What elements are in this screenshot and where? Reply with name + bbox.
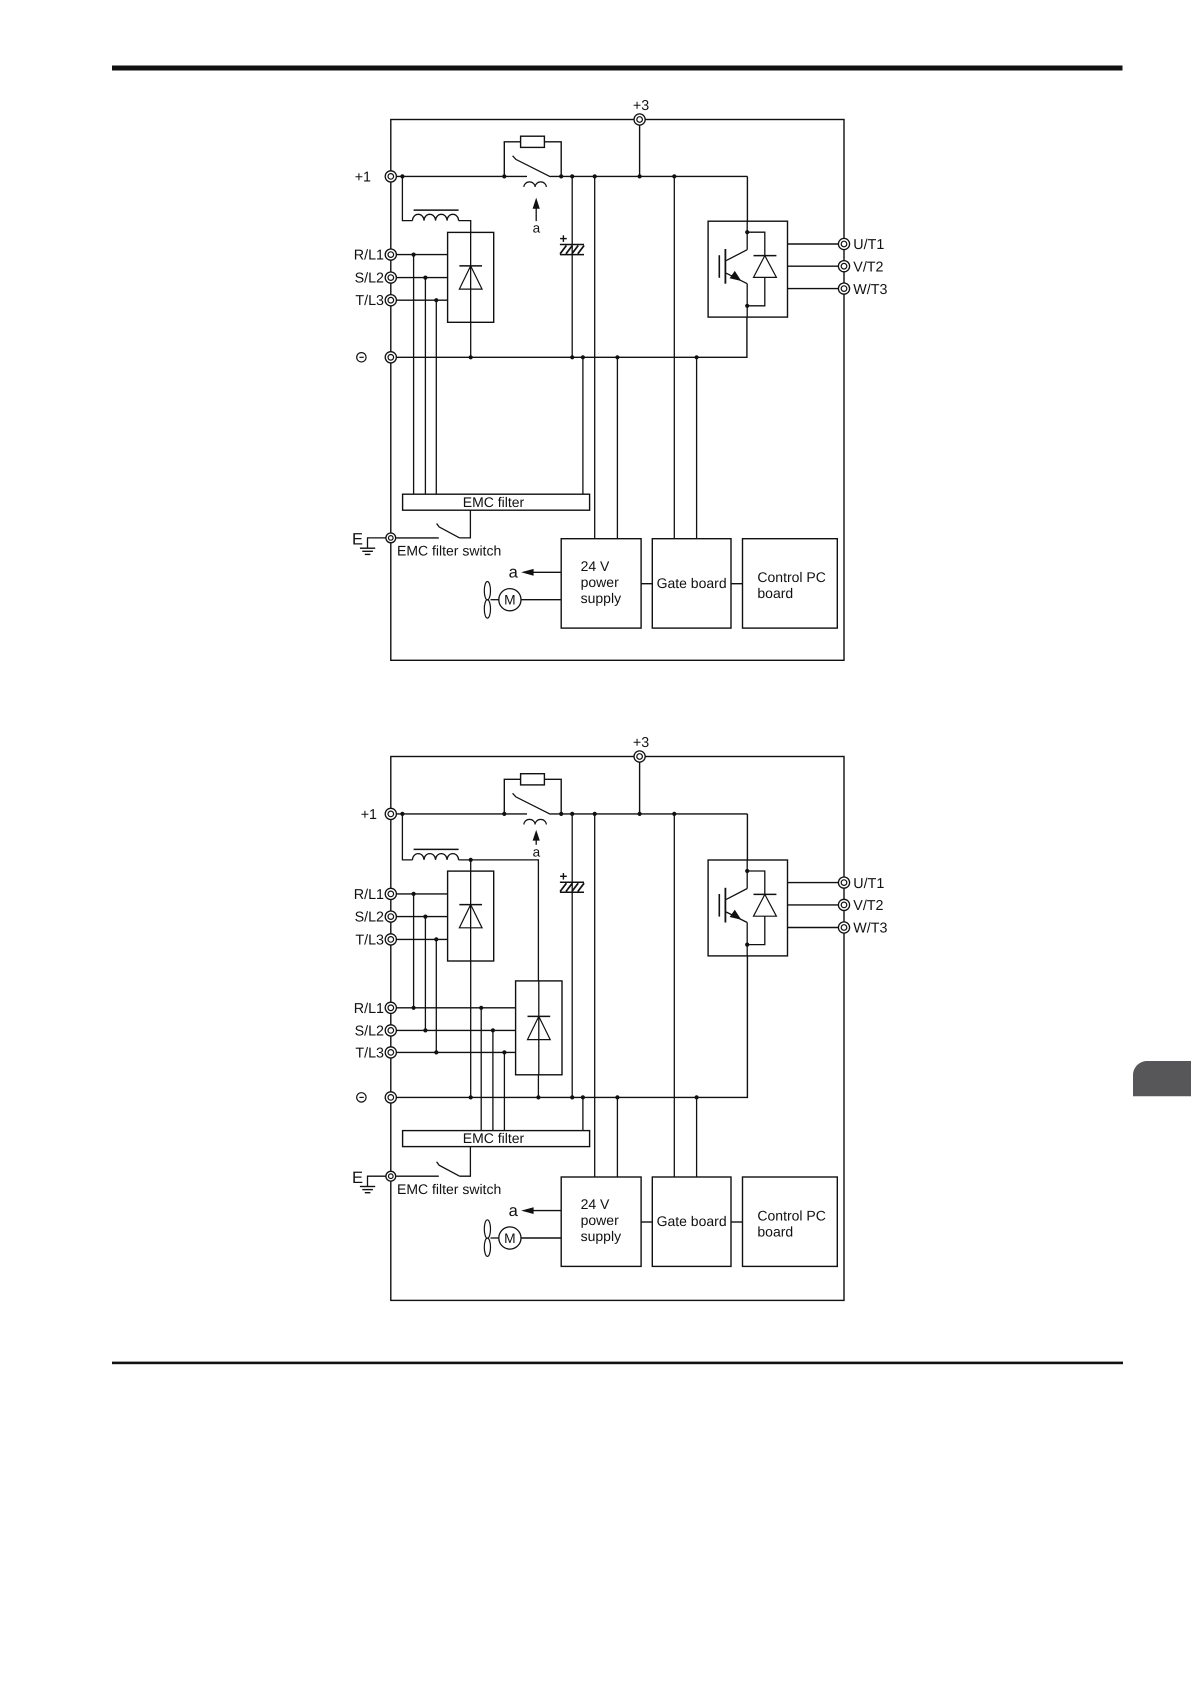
junction T/L3-2 EMC tap [502,1050,506,1054]
IGBT INV1 collector lead [726,250,747,261]
wire resistor right leg [544,142,561,177]
capacitor C2 hatch strokes [560,883,584,891]
terminal R/L1 [385,249,396,260]
inverter INV1 freewheel diode cathode bar [754,255,777,257]
junction S/L2-1 link tap [423,915,427,919]
IGBT INV2 collector lead [726,889,747,900]
svg-text:+1: +1 [355,169,371,185]
terminal S/L2 [385,1025,396,1036]
control PC board label [757,569,825,601]
svg-text:S/L2: S/L2 [355,271,384,287]
svg-text:board: board [757,1223,793,1239]
inverter INV1 diode bottom branch [747,277,765,305]
wire EMC filter to switch [460,1147,471,1177]
junction S/L2-2 link [423,1028,427,1032]
junction minus/24V-feed [615,1095,619,1099]
wire rectifier minus output [470,322,472,357]
IGBT INV2 gate bar [718,894,720,917]
inverter INV1 collector rail [746,221,748,250]
svg-text:T/L3: T/L3 [355,932,384,948]
svg-text:+3: +3 [633,98,649,114]
inverter INV2 emitter rail [746,923,748,956]
wire R/L1 to EMC filter [413,255,415,495]
label DC minus [357,1093,366,1102]
wire +3 drop [639,762,641,814]
junction S/L2-2 EMC tap [491,1028,495,1032]
wire 24V supply to gate board [641,583,652,585]
IGBT INV1 gate bar [718,255,720,278]
svg-text:E: E [352,531,363,549]
DC bus capacitor C2 lead [571,814,573,892]
fan motor M circle [499,589,521,611]
wire resistor right leg [544,779,561,814]
wire E terminal to switch [396,1175,439,1177]
rectifier REC2 diode cathode bar [528,1015,551,1017]
svg-text:EMC filter: EMC filter [463,494,525,510]
svg-text:a: a [509,564,519,582]
wire bus to DC reactor [402,176,412,220]
wire inverter output V/T2 [788,904,839,906]
svg-text:T/L3: T/L3 [355,1045,384,1061]
wire +1 bus to gate board [673,814,675,1177]
IGBT INV1 emitter lead [726,273,747,284]
rectifier REC1 diode cathode bar [459,265,482,267]
wire inverter output U/T1 [788,243,839,245]
inverter INV2 freewheel diode cathode bar [754,893,777,895]
svg-text:Gate board: Gate board [657,1213,727,1229]
24 V power supply label [581,558,621,606]
wire S/L2 to EMC filter [424,278,426,495]
fan motor M circle [499,1227,521,1249]
junction minus/gate-feed [695,355,699,359]
svg-text:V/T2: V/T2 [853,259,883,275]
wire T/L3 to EMC filter [435,300,437,494]
svg-text:a: a [509,1202,519,1220]
inverter INV2 top node junction [745,869,749,873]
wire resistor left leg [504,779,520,814]
rectifier bridge REC2 box [516,981,562,1075]
wire bus to DC reactor [402,814,412,860]
24 V power supply box [561,1177,641,1266]
DC reactor core bar [414,848,459,850]
wire minus bus to 24V supply [616,357,618,538]
wire phase R/L1 input (group 2) [396,1007,515,1009]
wire phase T/L3 input [396,299,447,301]
wire DC bus right segment [551,175,748,177]
capacitor C2 bottom lead [571,892,573,1097]
junction bus/24V-feed [593,812,597,816]
rectifier bridge REC1 box [448,232,494,322]
cooling fan blades [484,1220,490,1257]
svg-text:EMC filter: EMC filter [463,1130,525,1146]
IGBT inverter module INV2 box [708,860,787,956]
inverter INV2 diode top branch [747,871,765,894]
EMC filter switch blade [437,1162,460,1176]
svg-text:M: M [504,593,516,608]
junction R/L1-1 link tap [412,892,416,896]
contactor control arrow a [533,198,540,222]
junction reactor line / rectifier 1 [469,858,473,862]
wire +1 bus to 24V supply [594,814,596,1177]
junction R/L1 EMC tap [412,253,416,257]
wire E terminal to switch [396,537,439,539]
svg-text:T/L3: T/L3 [355,293,384,309]
svg-text:+3: +3 [633,735,649,751]
wire resistor left leg [504,142,520,177]
EMC filter box [403,1131,590,1147]
gate board box [652,539,731,628]
svg-text:W/T3: W/T3 [853,921,887,937]
terminal U/T1 [838,877,849,888]
junction R/L1-2 EMC tap [479,1006,483,1010]
capacitor C1 hatch strokes [560,246,584,254]
wire phase S/L2 input [396,277,447,279]
footer rule [112,1362,1123,1365]
rectifier bridge REC1b box [448,871,494,961]
wire reactor to rectifier [459,221,471,233]
junction bus/reactor [400,812,404,816]
terminal +1 [385,171,396,182]
junction bus/gate-feed [672,812,676,816]
IGBT INV1 emitter arrow [730,271,742,281]
svg-text:EMC filter switch: EMC filter switch [397,543,501,559]
wire gate board to control PC board [731,583,743,585]
control PC board box [743,1177,838,1266]
svg-text:U/T1: U/T1 [853,237,884,253]
junction bus/24V-feed [593,174,597,178]
wire DC bus left segment [396,813,527,815]
wire minus bus to gate board [696,1097,698,1177]
wire inverter output V/T2 [788,265,839,267]
svg-text:a: a [533,845,541,860]
rectifier REC1 diode triangle [459,266,482,289]
svg-text:Control PC: Control PC [757,569,825,585]
wire DC bus right segment [551,813,748,815]
wire E to ground [368,538,386,548]
wire gate board to control PC board [731,1221,743,1223]
wire +1 bus to gate board [673,176,675,538]
bypass contactor contact blade [513,156,551,177]
terminal +3 [634,114,645,125]
svg-text:E: E [352,1169,363,1187]
DC reactor coil [413,854,459,860]
capacitor C1 bottom plate [560,254,584,256]
ground symbol [360,548,375,554]
wire phase S/L2 input (group 2) [396,1029,515,1031]
rectifier REC1b diode cathode bar [459,904,482,906]
DC reactor coil [413,214,459,220]
wire T/L3 group link [435,939,437,1052]
junction minus/rectifier-1 [469,1095,473,1099]
terminal T/L3 [385,934,396,945]
svg-text:Gate board: Gate board [657,575,727,591]
IGBT INV2 body bar [724,888,726,923]
wire fan hub [491,599,499,601]
svg-text:a: a [533,220,541,235]
svg-text:Control PC: Control PC [757,1207,825,1223]
junction bus/gate-feed [672,174,676,178]
capacitor C2 top plate [560,881,584,883]
terminal V/T2 [838,261,849,272]
wire fan motor to 24V supply [521,599,561,601]
terminal DC minus [385,352,396,363]
terminal U/T1 [838,238,849,249]
junction minus/EMC-feed [581,1095,585,1099]
DC reactor core bar [414,209,459,211]
wire DC minus bus [396,956,747,1097]
inverter INV2 freewheel diode triangle [754,894,777,916]
inverter INV2 bottom node junction [745,943,749,947]
junction bus/+3 [638,812,642,816]
svg-text:power: power [581,1212,619,1228]
gate board box [652,1177,731,1266]
junction minus/capacitor [570,355,574,359]
EMC filter switch blade [437,524,460,538]
terminal DC minus [385,1092,396,1103]
wire rectifier 2 minus output [537,1075,539,1098]
rectifier REC2 through line [538,981,540,1075]
junction minus/rectifier [469,355,473,359]
inverter INV2 collector rail [746,860,748,889]
wire +1 bus to 24V supply [594,176,596,538]
terminal E [386,1171,396,1181]
wire minus bus to EMC filter [582,1097,584,1130]
terminal E [386,533,396,543]
wire phase R/L1 input (group 1) [396,893,447,895]
24 V power supply label [581,1196,621,1244]
DC bus capacitor C1 lead [571,176,573,254]
svg-text:supply: supply [581,1228,621,1244]
junction bus/resistor-left [502,174,506,178]
wire R/L1 to EMC filter [480,1008,482,1131]
svg-text:S/L2: S/L2 [355,910,384,926]
wire phase T/L3 input (group 1) [396,938,447,940]
terminal T/L3 [385,295,396,306]
wire phase T/L3 input (group 2) [396,1051,515,1053]
terminal R/L1 [385,1002,396,1013]
wire bus to inverter [746,814,748,860]
junction bus/capacitor [570,812,574,816]
junction T/L3-1 link tap [434,937,438,941]
IGBT INV2 emitter arrow [730,910,742,920]
capacitor C1 plus mark [560,235,567,242]
svg-text:R/L1: R/L1 [354,887,384,903]
precharge resistor [521,136,545,147]
junction T/L3 EMC tap [434,298,438,302]
junction bus/reactor [400,174,404,178]
enclosure box (diagram 1) [391,120,844,661]
junction minus/rectifier-2 [536,1095,540,1099]
svg-text:24 V: 24 V [581,1196,610,1212]
contactor control arrow a [533,830,540,845]
cooling fan blades [484,582,490,619]
inverter INV1 diode top branch [747,232,765,255]
header rule [112,66,1123,71]
terminal T/L3 [385,1047,396,1058]
wire rectifier 1 plus lead [470,860,472,871]
capacitor C2 plus mark [560,873,567,880]
wire E to ground [368,1176,386,1186]
junction bus/resistor-right [559,174,563,178]
junction bus/resistor-left [502,812,506,816]
wire minus bus to 24V supply [616,1097,618,1177]
terminal R/L1 [385,888,396,899]
junction T/L3-2 link [434,1050,438,1054]
junction bus/resistor-right [559,812,563,816]
svg-text:24 V: 24 V [581,558,610,574]
24 V power supply box [561,539,641,628]
rectifier REC1b diode triangle [459,905,482,928]
rectifier REC1 through line [470,232,472,322]
control PC board box [743,539,838,628]
svg-text:board: board [757,585,793,601]
junction bus/capacitor [570,174,574,178]
terminal +1 [385,808,396,819]
wire DC minus bus [396,317,747,357]
wire fan hub [491,1237,499,1239]
contactor coil [524,819,546,824]
wire inverter output W/T3 [788,927,839,929]
terminal S/L2 [385,272,396,283]
wire R/L1 group link [413,894,415,1008]
svg-text:R/L1: R/L1 [354,1001,384,1017]
junction S/L2 EMC tap [423,276,427,280]
capacitor C2 bottom plate [560,891,584,893]
svg-text:U/T1: U/T1 [853,876,884,892]
junction minus/capacitor [570,1095,574,1099]
wire EMC filter to switch [460,510,471,538]
wire S/L2 to EMC filter [492,1030,494,1130]
wire S/L2 group link [424,917,426,1031]
rectifier REC1b through line [470,871,472,961]
chapter thumb tab [1133,1061,1191,1096]
wire phase R/L1 input [396,254,447,256]
precharge resistor [521,774,545,785]
wire minus bus to gate board [696,357,698,538]
terminal W/T3 [838,922,849,933]
wire +3 drop [639,125,641,176]
wire 24V supply to gate board [641,1221,652,1223]
ground symbol [360,1187,375,1193]
svg-text:V/T2: V/T2 [853,898,883,914]
svg-text:EMC filter switch: EMC filter switch [397,1181,501,1197]
bypass contactor contact blade [513,793,551,814]
inverter INV1 emitter rail [746,284,748,317]
IGBT inverter module INV1 box [708,221,787,317]
junction minus/EMC-feed [581,355,585,359]
junction minus/gate-feed [695,1095,699,1099]
svg-text:power: power [581,574,619,590]
junction minus/24V-feed [615,355,619,359]
IGBT INV1 body bar [724,249,726,284]
inverter INV1 top node junction [745,230,749,234]
wire inverter output U/T1 [788,882,839,884]
terminal S/L2 [385,911,396,922]
wire reactor to rectifier 2 feed [459,860,539,981]
terminal W/T3 [838,283,849,294]
inverter INV2 diode bottom branch [747,916,765,944]
IGBT INV2 emitter lead [726,912,747,923]
svg-text:M: M [504,1231,516,1246]
capacitor C1 top plate [560,244,584,246]
control-signal arrow a (24V supply) [521,569,561,576]
junction bus/+3 [638,174,642,178]
svg-text:supply: supply [581,590,621,606]
svg-text:R/L1: R/L1 [354,248,384,264]
wire T/L3 to EMC filter [503,1052,505,1130]
wire inverter output W/T3 [788,288,839,290]
svg-text:W/T3: W/T3 [853,282,887,298]
terminal +3 [634,751,645,762]
svg-text:S/L2: S/L2 [355,1023,384,1039]
junction R/L1-2 link [412,1006,416,1010]
label DC minus [357,353,366,362]
wire DC bus left segment [396,175,527,177]
EMC filter box [403,494,590,510]
enclosure box (diagram 2) [391,757,844,1301]
wire minus bus to EMC filter [582,357,584,494]
inverter INV1 freewheel diode triangle [754,256,777,278]
capacitor C1 bottom lead [571,255,573,358]
control PC board label [757,1207,825,1239]
inverter INV1 bottom node junction [745,304,749,308]
wire rectifier 1 minus output [470,961,472,1097]
control-signal arrow a (24V supply) [521,1207,561,1214]
svg-text:+1: +1 [361,807,377,823]
wire fan motor to 24V supply [521,1237,561,1239]
terminal V/T2 [838,899,849,910]
contactor coil [524,182,546,187]
rectifier REC2 diode triangle [528,1016,551,1039]
wire bus to inverter [746,176,748,221]
wire phase S/L2 input (group 1) [396,916,447,918]
